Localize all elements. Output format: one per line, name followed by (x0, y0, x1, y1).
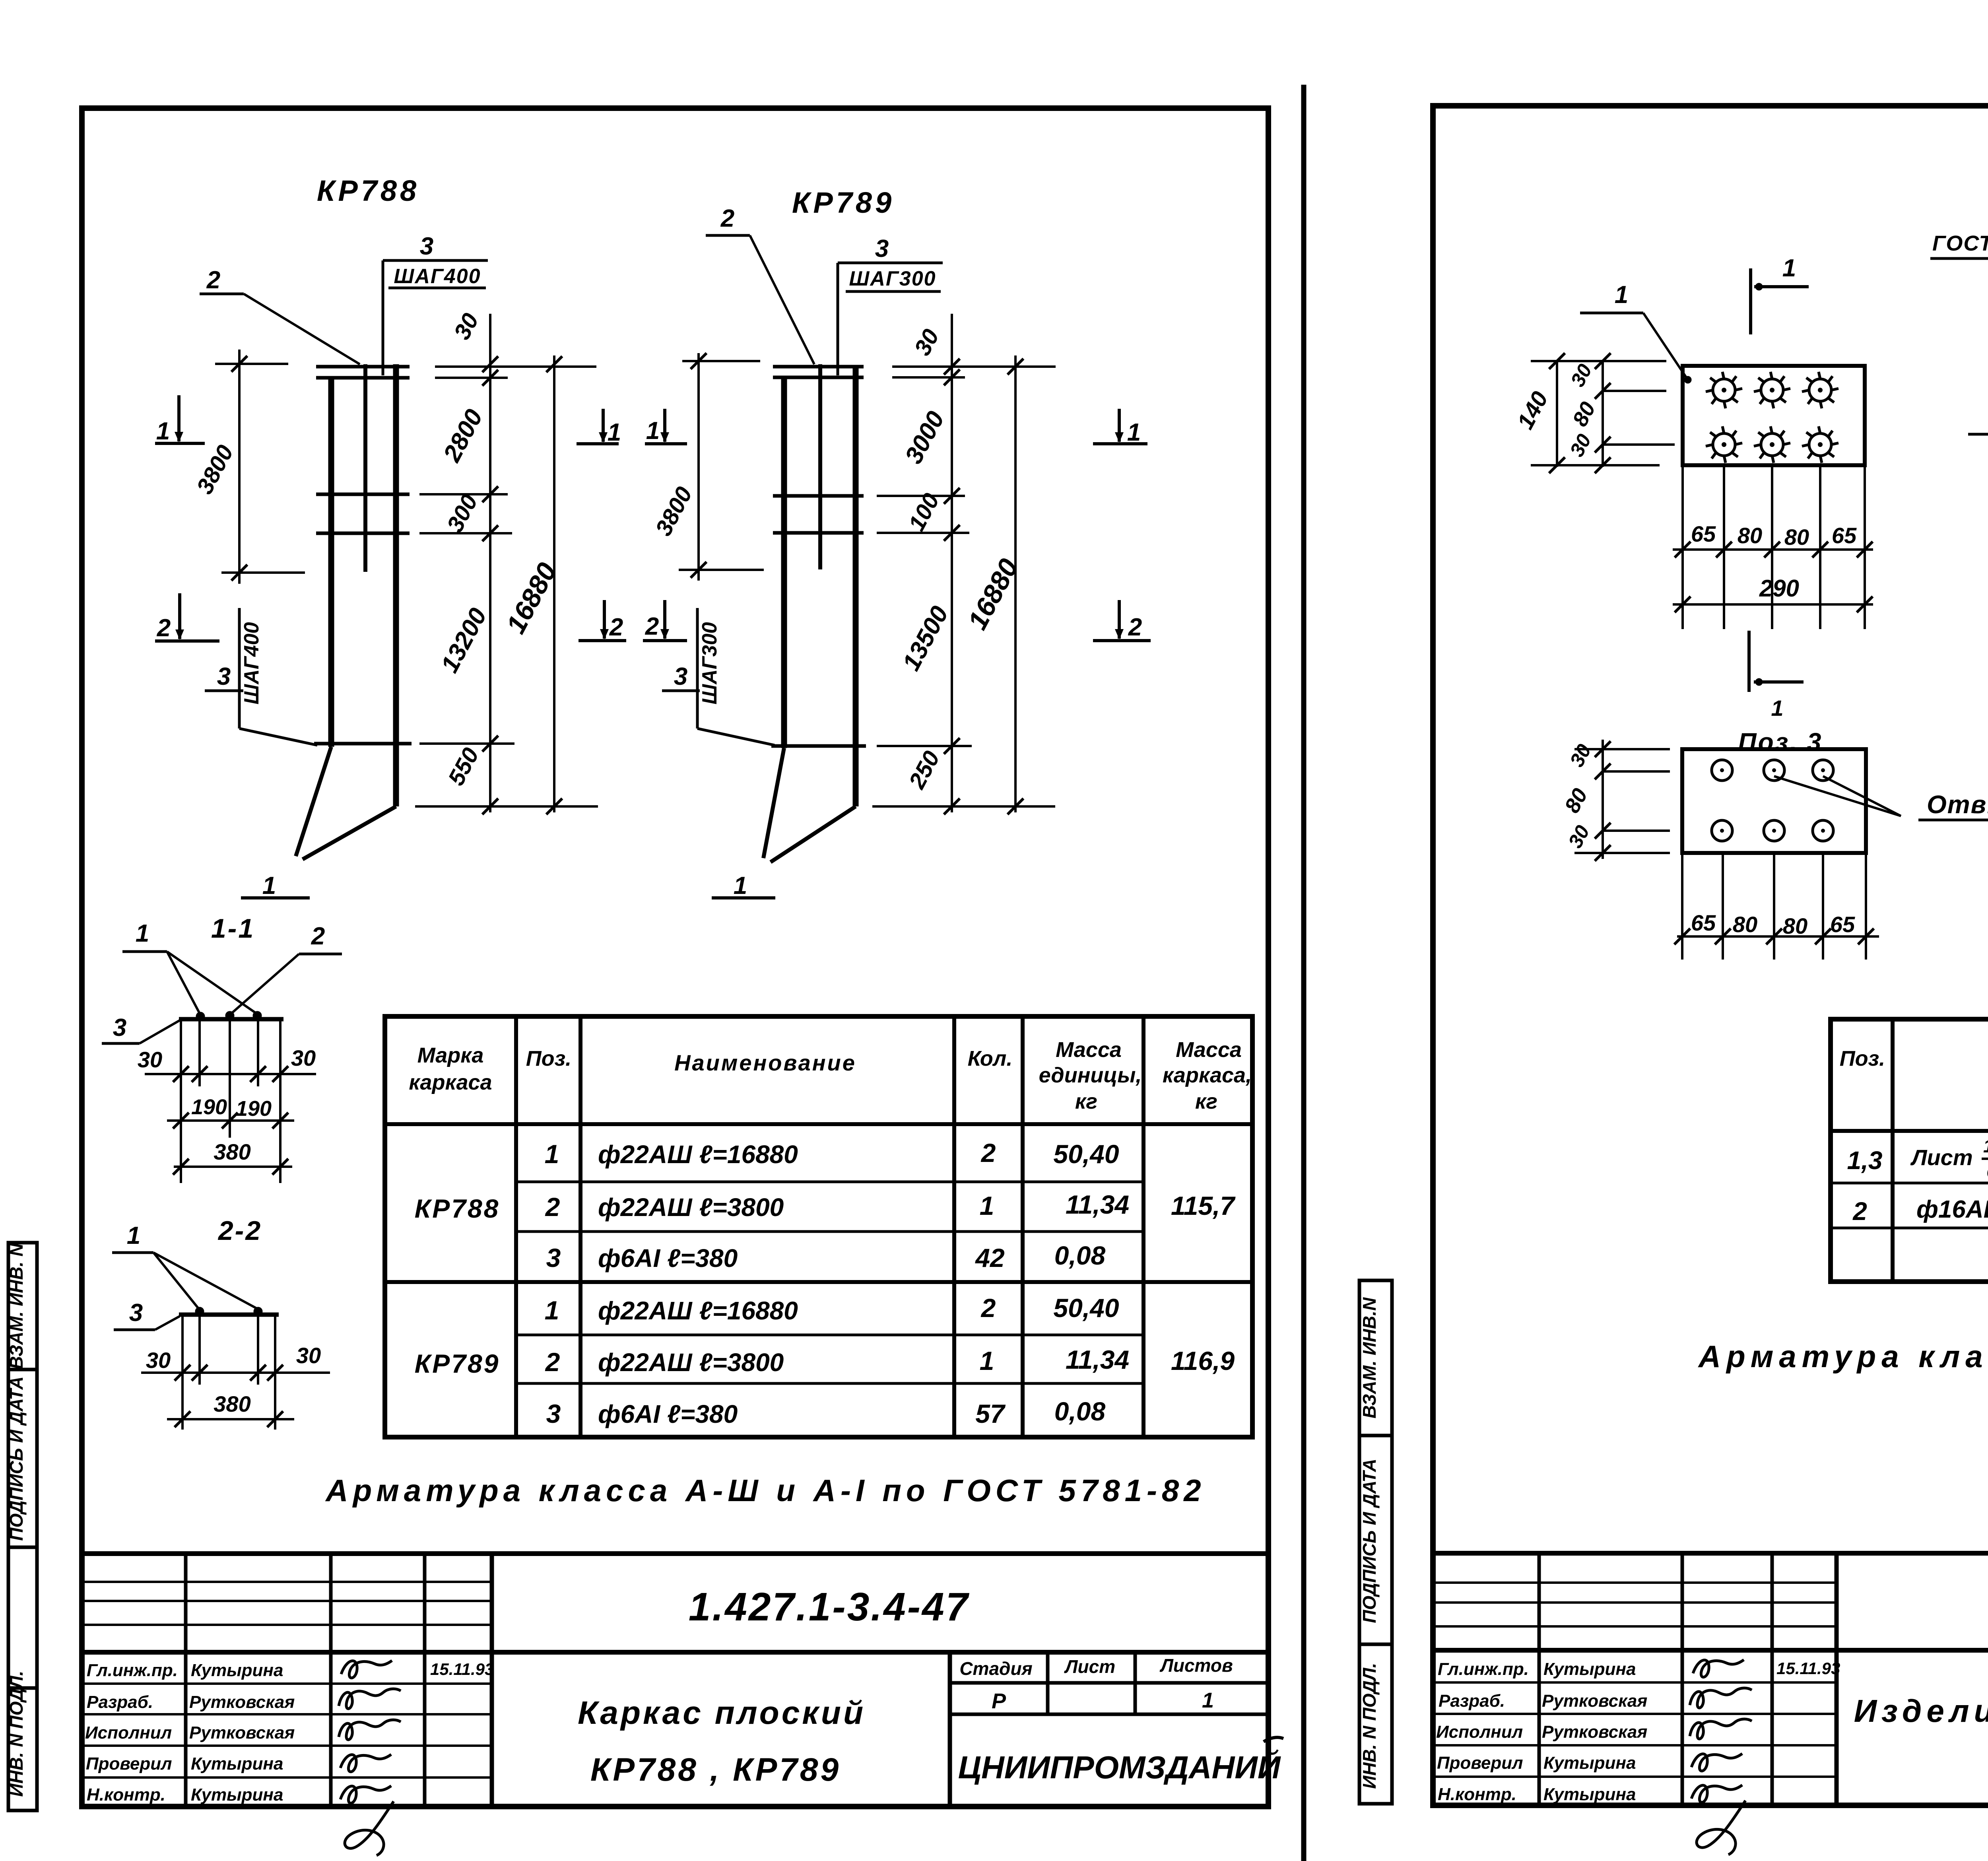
svg-text:Разраб.: Разраб. (1439, 1691, 1505, 1711)
svg-text:Отв. Ф20: Отв. Ф20 (1927, 790, 1988, 819)
svg-text:80: 80 (1784, 524, 1809, 550)
svg-text:1: 1 (545, 1296, 559, 1325)
svg-text:ШАГ300: ШАГ300 (849, 267, 936, 290)
svg-text:ф22АШ ℓ=3800: ф22АШ ℓ=3800 (598, 1193, 784, 1222)
svg-text:2: 2 (545, 1192, 560, 1222)
svg-text:2: 2 (980, 1138, 996, 1167)
svg-text:115,7: 115,7 (1171, 1191, 1236, 1220)
svg-text:15.11.93: 15.11.93 (1776, 1659, 1840, 1678)
svg-text:30: 30 (296, 1343, 321, 1368)
svg-text:Стадия: Стадия (959, 1658, 1032, 1679)
svg-text:ПОДПИСЬ И ДАТА: ПОДПИСЬ И ДАТА (1359, 1459, 1380, 1623)
svg-text:1: 1 (734, 872, 747, 899)
svg-text:1: 1 (136, 920, 149, 947)
svg-text:1: 1 (156, 418, 170, 445)
svg-text:ф6АI ℓ=380: ф6АI ℓ=380 (598, 1400, 738, 1428)
svg-text:Кутырина: Кутырина (191, 1754, 283, 1774)
svg-text:1: 1 (608, 419, 621, 446)
svg-text:Поз.: Поз. (1840, 1047, 1885, 1070)
svg-text:0,08: 0,08 (1054, 1241, 1106, 1270)
svg-text:Кутырина: Кутырина (191, 1785, 283, 1805)
svg-text:2: 2 (609, 614, 623, 641)
svg-text:КР788: КР788 (415, 1194, 500, 1223)
svg-text:1-1: 1-1 (211, 913, 255, 944)
svg-text:2: 2 (645, 613, 659, 640)
svg-text:Изделие закладное: Изделие закладное (1854, 1693, 1988, 1729)
svg-text:Проверил: Проверил (86, 1754, 172, 1774)
svg-text:65: 65 (1691, 521, 1716, 546)
svg-text:ф6АI ℓ=380: ф6АI ℓ=380 (598, 1244, 738, 1272)
svg-text:380: 380 (214, 1391, 250, 1416)
svg-text:1: 1 (1782, 254, 1796, 282)
svg-text:Масса: Масса (1056, 1038, 1122, 1062)
svg-text:80: 80 (1738, 523, 1762, 548)
svg-text:Рутковская: Рутковская (1542, 1722, 1647, 1742)
svg-text:Арматура класса А-Ш по ГОСТ: Арматура класса А-Ш по ГОСТ 5781-82 (1698, 1339, 1988, 1374)
svg-text:Поз.: Поз. (526, 1047, 571, 1070)
svg-text:Кутырина: Кутырина (1543, 1659, 1636, 1679)
svg-text:2: 2 (1128, 614, 1142, 641)
svg-text:единицы,: единицы, (1039, 1063, 1142, 1087)
svg-text:КР789: КР789 (415, 1349, 500, 1378)
svg-text:ЦНИИПРОМЗДАНИЙ: ЦНИИПРОМЗДАНИЙ (958, 1749, 1281, 1785)
svg-text:1: 1 (646, 417, 660, 445)
svg-text:каркаса: каркаса (409, 1070, 492, 1094)
svg-text:2: 2 (545, 1347, 560, 1377)
svg-text:65: 65 (1832, 523, 1857, 548)
svg-text:Исполнил: Исполнил (85, 1723, 172, 1743)
svg-text:2: 2 (720, 205, 734, 232)
svg-text:Кутырина: Кутырина (1543, 1785, 1636, 1804)
svg-text:1: 1 (262, 872, 276, 899)
svg-text:Наименование: Наименование (674, 1050, 856, 1075)
svg-text:3: 3 (674, 663, 687, 690)
svg-text:Разраб.: Разраб. (87, 1692, 153, 1712)
svg-text:1: 1 (980, 1191, 994, 1220)
svg-text:КР789: КР789 (792, 186, 895, 219)
svg-text:кг: кг (1195, 1090, 1217, 1113)
svg-text:Р: Р (992, 1689, 1006, 1713)
svg-text:Масса: Масса (1176, 1038, 1242, 1062)
svg-text:1,3: 1,3 (1847, 1146, 1883, 1175)
svg-text:80: 80 (1783, 913, 1807, 938)
svg-text:Рутковская: Рутковская (1542, 1691, 1647, 1711)
svg-text:ШАГ300: ШАГ300 (698, 622, 721, 704)
svg-text:Лист: Лист (1910, 1145, 1973, 1170)
svg-text:2-2: 2-2 (217, 1216, 262, 1246)
svg-text:ШАГ400: ШАГ400 (394, 265, 481, 288)
svg-text:1: 1 (1202, 1688, 1214, 1712)
svg-text:каркаса,: каркаса, (1163, 1063, 1252, 1087)
svg-text:11,34: 11,34 (1066, 1190, 1129, 1219)
svg-text:Кол.: Кол. (968, 1047, 1013, 1070)
svg-text:Поз. 3: Поз. 3 (1738, 728, 1823, 756)
svg-text:3: 3 (546, 1243, 561, 1272)
svg-text:80: 80 (1733, 912, 1757, 937)
svg-text:Арматура класса А-Ш и А-I: Арматура класса А-Ш и А-I по ГОСТ 5781-8… (325, 1473, 1206, 1508)
svg-text:ИНВ. N ПОДЛ.: ИНВ. N ПОДЛ. (6, 1671, 27, 1797)
svg-text:30: 30 (291, 1045, 316, 1070)
svg-text:ИНВ. N ПОДЛ.: ИНВ. N ПОДЛ. (1359, 1663, 1380, 1789)
svg-text:12х140х290 ГОСТ 19903-74: 12х140х290 ГОСТ 19903-74 (1983, 1136, 1988, 1156)
svg-text:190: 190 (191, 1095, 227, 1119)
svg-text:КР788: КР788 (317, 174, 419, 207)
svg-text:Марка: Марка (417, 1043, 484, 1067)
svg-text:1: 1 (980, 1346, 994, 1375)
svg-text:ф22АШ ℓ=16880: ф22АШ ℓ=16880 (598, 1296, 798, 1325)
svg-text:Лист: Лист (1064, 1656, 1115, 1677)
svg-text:380: 380 (214, 1139, 250, 1164)
svg-text:116,9: 116,9 (1171, 1346, 1235, 1375)
svg-text:42: 42 (975, 1243, 1005, 1272)
svg-text:1: 1 (127, 1222, 140, 1249)
svg-text:ВЗАМ. ИНВ.N: ВЗАМ. ИНВ.N (1359, 1297, 1380, 1418)
svg-text:2: 2 (980, 1293, 996, 1323)
svg-text:30: 30 (138, 1047, 162, 1072)
svg-text:0,08: 0,08 (1054, 1397, 1106, 1426)
svg-text:1.427.1-3.4-47: 1.427.1-3.4-47 (689, 1585, 970, 1629)
svg-text:1: 1 (1771, 695, 1783, 721)
svg-text:Рутковская: Рутковская (189, 1692, 295, 1712)
svg-text:50,40: 50,40 (1053, 1293, 1119, 1323)
svg-text:3: 3 (875, 235, 889, 262)
svg-text:190: 190 (236, 1097, 272, 1121)
svg-text:Рутковская: Рутковская (189, 1723, 295, 1743)
svg-text:11,34: 11,34 (1066, 1345, 1129, 1374)
svg-text:2: 2 (311, 923, 325, 950)
svg-text:ГОСТ14098-91-Т1-МФ: ГОСТ14098-91-Т1-МФ (1932, 231, 1988, 255)
svg-text:Каркас плоский: Каркас плоский (578, 1695, 866, 1731)
svg-text:Н.контр.: Н.контр. (1438, 1785, 1516, 1804)
svg-text:2: 2 (157, 614, 171, 642)
svg-text:3: 3 (420, 233, 433, 260)
svg-text:1: 1 (545, 1139, 559, 1169)
svg-text:ВЗАМ. ИНВ. N: ВЗАМ. ИНВ. N (6, 1243, 27, 1370)
svg-text:Проверил: Проверил (1437, 1753, 1523, 1773)
svg-text:3: 3 (113, 1014, 126, 1041)
svg-text:65: 65 (1691, 910, 1716, 935)
svg-text:Н.контр.: Н.контр. (87, 1785, 165, 1805)
svg-text:50,40: 50,40 (1053, 1139, 1119, 1169)
svg-text:Гл.инж.пр.: Гл.инж.пр. (1438, 1659, 1529, 1679)
svg-text:ф16АШ ℓ=376: ф16АШ ℓ=376 (1916, 1196, 1988, 1223)
svg-text:1: 1 (1615, 281, 1628, 309)
svg-text:КР788 , КР789: КР788 , КР789 (590, 1752, 841, 1788)
svg-text:290: 290 (1759, 575, 1799, 602)
svg-text:30: 30 (146, 1348, 171, 1373)
svg-text:ПОДПИСЬ И ДАТА: ПОДПИСЬ И ДАТА (6, 1376, 27, 1540)
svg-text:Кутырина: Кутырина (191, 1661, 283, 1680)
svg-text:Гл.инж.пр.: Гл.инж.пр. (87, 1661, 178, 1680)
svg-text:кг: кг (1075, 1090, 1097, 1113)
svg-text:3: 3 (129, 1299, 143, 1327)
svg-text:ф22АШ ℓ=3800: ф22АШ ℓ=3800 (598, 1348, 784, 1377)
svg-text:3: 3 (217, 663, 231, 690)
svg-text:65: 65 (1830, 912, 1855, 937)
svg-text:15.11.93: 15.11.93 (430, 1660, 494, 1678)
svg-text:ф22АШ ℓ=16880: ф22АШ ℓ=16880 (598, 1140, 798, 1169)
svg-text:2: 2 (1852, 1197, 1867, 1226)
svg-text:ШАГ400: ШАГ400 (240, 622, 263, 704)
svg-text:57: 57 (975, 1399, 1006, 1428)
svg-text:Исполнил: Исполнил (1436, 1722, 1523, 1742)
svg-text:1: 1 (1127, 419, 1141, 446)
svg-text:Кутырина: Кутырина (1543, 1753, 1636, 1773)
svg-text:Листов: Листов (1159, 1655, 1233, 1676)
svg-text:3: 3 (546, 1399, 561, 1428)
svg-text:С245 ГОСТ 27772-88: С245 ГОСТ 27772-88 (1986, 1162, 1988, 1183)
svg-text:2: 2 (206, 266, 220, 294)
